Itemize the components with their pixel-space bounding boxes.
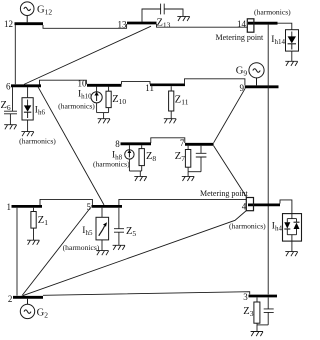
wire 14 to Ih14 [278,23,292,30]
metering point box (bus 4) [246,198,253,211]
svg-text:Metering point: Metering point [216,33,265,42]
svg-text:Z3: Z3 [243,306,253,318]
svg-text:6: 6 [6,81,11,91]
svg-text:2: 2 [8,294,13,304]
wire 14-9-4-3 vertical [267,25,269,295]
ground (Z7) [182,176,194,181]
svg-text:Z10: Z10 [112,94,126,106]
wire 9-7 diagonal [214,88,246,143]
bus 3 [249,295,278,298]
bus 4 [248,203,280,206]
svg-text:Ih4: Ih4 [272,222,283,233]
svg-text:Ih14: Ih14 [271,35,285,46]
svg-text:Ih5: Ih5 [82,226,93,237]
svg-text:Z8: Z8 [146,151,156,163]
bus 14 [248,22,278,25]
ground (Z11) [164,119,176,124]
wire 1-2 [16,208,18,296]
wire 2-4 [23,211,246,296]
svg-text:13: 13 [118,19,128,29]
svg-text:Z5: Z5 [126,226,136,238]
svg-text:G12: G12 [37,5,52,17]
generator G9 [249,63,264,86]
wire 12-13 [43,24,127,28]
wire 8-7 [151,138,185,143]
impedance Z6 (capacitor) [4,87,17,125]
ground (Z3) [251,332,263,337]
capacitor Z13 [142,4,183,22]
wire Ih6 to ground [27,120,29,132]
impedance Z7 [185,146,206,177]
impedance Z8 [129,145,144,176]
bus 11 [150,84,185,87]
svg-text:Ih10: Ih10 [78,89,92,100]
svg-text:10: 10 [78,79,88,89]
harmonic source Ih10 (arrow circle) [91,87,102,113]
svg-text:5: 5 [87,202,92,212]
svg-text:(harmonics): (harmonics) [19,137,56,146]
svg-text:(harmonics): (harmonics) [254,7,291,16]
svg-text:Z7: Z7 [175,151,185,163]
svg-text:(harmonics): (harmonics) [229,222,266,231]
bus 8 [121,142,152,145]
wire 6-13 diagonal [24,26,151,84]
wire Ih14 to ground [291,51,293,61]
ground (Z13) [177,16,189,21]
ground (Ih14) [285,61,297,66]
harmonic source Ih14 (diode box) [286,30,299,51]
impedance Z11 [169,86,174,118]
wire 2-3 [43,292,250,296]
ground (Z6) [4,125,16,130]
bus 6 [11,84,41,87]
wire 11-9 [185,79,245,86]
svg-text:1: 1 [7,202,12,212]
svg-text:11: 11 [145,83,154,93]
wire 6-10 [40,80,87,84]
wire Ih4 to ground [291,241,293,251]
ground (Ih5) [96,251,108,256]
wire 13-14 [157,24,248,27]
wire 7-4 diagonal [214,146,247,198]
ground (Z1) [27,240,39,245]
harmonic source Ih4 (thyristor pair box) [283,214,302,242]
svg-text:12: 12 [4,19,13,29]
svg-text:7: 7 [180,138,185,148]
wire 5-4 [119,199,246,205]
ground (Ih4) [285,252,297,257]
wire 1-5 [40,199,92,205]
ground (Z8) [134,176,146,181]
metering point box (bus 14) [247,19,254,32]
bus 9 [245,85,279,88]
wire 2-5 [22,208,91,296]
svg-text:4: 4 [242,201,247,211]
ground (Z5) [113,245,125,250]
bus 7 [185,143,214,146]
wire 6-5 diagonal [38,87,104,205]
impedance Z10 [97,87,112,119]
svg-text:Ih6: Ih6 [35,105,46,116]
svg-text:G9: G9 [236,66,248,78]
svg-text:(harmonics): (harmonics) [93,160,130,169]
ground (Ih6) [21,132,33,137]
ground (Z10) [98,119,110,124]
bus 10 [87,84,122,87]
svg-text:Z1: Z1 [38,215,48,227]
harmonic source Ih8 (arrow circle) [125,145,134,171]
harmonic source Ih6 (diode box) [22,87,33,120]
bus 1 [12,205,43,208]
svg-text:Metering point: Metering point [200,189,249,198]
svg-text:G2: G2 [37,308,49,320]
wire 4 to Ih4 [280,200,292,214]
svg-text:14: 14 [237,19,247,29]
harmonic source Ih5 (converter box) [96,208,109,251]
impedance Z3 [254,298,274,332]
svg-text:Z11: Z11 [175,95,189,107]
capacitor Z5 [114,208,124,245]
svg-text:(harmonics): (harmonics) [63,243,100,252]
generator G12 [20,2,34,22]
bus 5 [92,205,123,208]
bus 13 [127,22,157,25]
svg-text:3: 3 [243,292,248,302]
svg-text:8: 8 [115,139,120,149]
impedance Z1 [31,208,36,240]
wire 10-11 [122,82,151,85]
svg-text:Z6: Z6 [1,100,11,112]
bus 12 [15,22,44,25]
wire 12-6 [14,25,16,84]
bus 2 [13,296,43,299]
svg-text:(harmonics): (harmonics) [58,102,95,111]
generator G2 [20,299,34,319]
